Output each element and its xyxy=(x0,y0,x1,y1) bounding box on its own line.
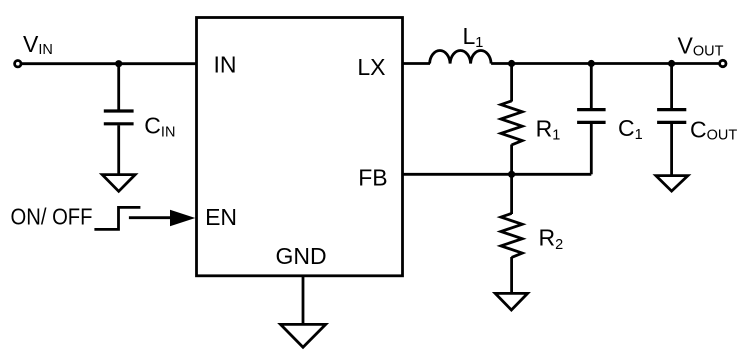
op-amp U1 xyxy=(197,18,403,276)
node junction R1 top xyxy=(508,60,515,67)
wire COUT top lead xyxy=(670,64,673,109)
svg-text:GND: GND xyxy=(276,243,327,269)
svg-text:IN: IN xyxy=(214,52,237,78)
svg-text:VOUT: VOUT xyxy=(678,33,724,60)
wire GND pin stub xyxy=(302,277,305,325)
svg-text:FB: FB xyxy=(358,164,387,190)
wire C1 top lead xyxy=(590,64,593,109)
wire C1 bottom lead xyxy=(590,124,593,174)
wire R2 top lead xyxy=(510,174,513,214)
svg-text:R2: R2 xyxy=(539,224,564,252)
wire R1 top lead xyxy=(510,64,513,102)
wire CIN top lead xyxy=(117,64,120,110)
svg-text:EN: EN xyxy=(205,204,237,230)
wire FB line xyxy=(403,173,592,176)
svg-text:CIN: CIN xyxy=(144,113,175,141)
svg-text:C1: C1 xyxy=(618,115,643,143)
wire LX to inductor xyxy=(403,62,431,65)
svg-text:COUT: COUT xyxy=(690,117,737,144)
node junction C1 top xyxy=(588,60,595,67)
node junction COUT top xyxy=(668,60,675,67)
wire R1 bottom lead xyxy=(510,145,513,175)
svg-text:ON/ OFF: ON/ OFF xyxy=(11,204,93,230)
ground for CIN xyxy=(102,175,135,192)
resistor R1 xyxy=(501,101,522,145)
capacitor CIN xyxy=(104,111,134,124)
arrowhead into EN xyxy=(170,210,195,226)
ground for COUT xyxy=(656,176,688,192)
wire R2 bottom lead xyxy=(510,257,513,294)
node VIN terminal xyxy=(15,61,21,67)
ground for GND pin xyxy=(281,324,326,347)
svg-text:VIN: VIN xyxy=(23,31,53,58)
svg-text:R1: R1 xyxy=(536,115,561,143)
node junction FB xyxy=(508,171,515,178)
wire EN arrow xyxy=(129,216,174,219)
wire COUT bottom lead xyxy=(670,124,673,176)
node junction CIN xyxy=(115,60,122,67)
ground for R2 xyxy=(495,293,527,310)
svg-text:L1: L1 xyxy=(463,23,484,51)
node VOUT terminal xyxy=(720,60,726,66)
step signal symbol xyxy=(94,207,140,229)
wire CIN bottom lead xyxy=(117,125,120,175)
wire VIN to IN pin xyxy=(21,62,196,65)
resistor R2 xyxy=(501,213,522,257)
wire inductor to VOUT xyxy=(491,62,720,65)
inductor L1 xyxy=(430,50,492,63)
svg-text:LX: LX xyxy=(357,54,385,80)
capacitor C1 xyxy=(577,110,606,123)
capacitor COUT xyxy=(657,110,686,123)
